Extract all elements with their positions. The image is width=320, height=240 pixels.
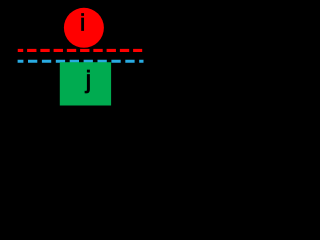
svg-text:i: i	[80, 10, 85, 36]
svg-text:j: j	[85, 66, 92, 94]
